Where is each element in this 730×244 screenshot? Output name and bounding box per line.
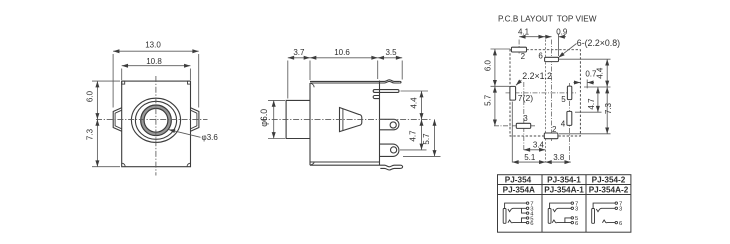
svg-text:2.2×1.2: 2.2×1.2	[522, 71, 552, 81]
schematic cell 2	[548, 202, 573, 224]
ext pin1	[401, 90, 429, 92]
corner square top-right	[188, 81, 191, 84]
sleeve bar 1	[503, 209, 506, 224]
svg-text:4.1: 4.1	[518, 27, 530, 36]
svg-text:5: 5	[561, 95, 566, 104]
corner square top-left	[122, 81, 125, 84]
svg-text:PJ-354-1: PJ-354-1	[547, 176, 581, 185]
svg-text:5.7: 5.7	[422, 133, 431, 145]
centerline v pad6/pad2b	[551, 40, 553, 142]
pin 1 hook tab	[373, 96, 380, 99]
svg-text:4.4: 4.4	[596, 67, 605, 79]
terminal circle 7	[526, 202, 528, 204]
svg-text:4.7: 4.7	[587, 98, 596, 110]
top flange plate lower line	[310, 81, 400, 83]
pad 6	[545, 57, 559, 61]
bottom flange end cap	[400, 165, 402, 168]
svg-text:13.0: 13.0	[145, 41, 161, 50]
bushing ring gray band	[142, 107, 169, 134]
dim 5.1 line	[512, 161, 545, 163]
dim 3.7 line	[288, 57, 310, 59]
hole circle phi3.6	[144, 108, 168, 132]
dim 3.5 line	[378, 57, 403, 59]
dim 4.1 line	[519, 36, 545, 38]
corner arc bottom-right	[187, 163, 191, 167]
pad 5	[567, 86, 571, 100]
side body left edge	[309, 83, 311, 165]
leader phi3.6	[169, 130, 201, 138]
pin 3 hole	[391, 147, 397, 153]
svg-text:0.9: 0.9	[556, 27, 568, 36]
svg-text:TOP VIEW: TOP VIEW	[557, 14, 597, 23]
dim 13.0 ext lines	[112, 54, 114, 108]
cone inner line	[342, 109, 344, 131]
svg-text:PJ-354: PJ-354	[505, 176, 532, 185]
pad 4	[567, 111, 572, 125]
svg-text:P.C.B LAYOUT: P.C.B LAYOUT	[498, 14, 553, 23]
throw wire to 4	[522, 208, 527, 213]
ext left dims	[491, 48, 511, 50]
front vertical centerline	[155, 76, 157, 176]
ext thin line shared	[544, 40, 546, 163]
side body bottom edge	[310, 161, 380, 163]
terminal circle 4	[526, 212, 528, 214]
left ear	[113, 108, 122, 132]
ext pad2b right	[559, 133, 611, 135]
pad 7	[510, 86, 516, 100]
svg-text:6: 6	[538, 51, 543, 60]
ext pad7 bottom	[511, 102, 513, 163]
wire ring to 6	[556, 222, 571, 224]
pin 2 hole	[390, 122, 396, 128]
terminal circle 6	[615, 221, 617, 223]
corner arc bottom-left	[122, 163, 126, 167]
svg-text:6.0: 6.0	[86, 90, 95, 102]
svg-text:3: 3	[575, 207, 579, 213]
top flange end cap	[400, 81, 401, 83]
dim 5.7 line	[434, 119, 436, 156]
leader 2.2x1.2	[516, 80, 522, 85]
dim phi6.0 line	[273, 100, 275, 138]
dim 7.3 line	[96, 119, 98, 166]
sleeve bar 3	[592, 209, 595, 224]
ext tick bottom	[92, 166, 120, 168]
bottom flange plate lower line	[380, 168, 400, 170]
terminal circle 6	[526, 221, 528, 223]
ext pin3	[400, 149, 427, 151]
sleeve bar 2	[548, 209, 551, 224]
table col line 1	[541, 175, 543, 233]
svg-text:4.4: 4.4	[410, 97, 419, 109]
svg-text:2: 2	[521, 52, 526, 61]
svg-text:PJ-354A-2: PJ-354A-2	[589, 186, 629, 195]
terminal circle 7	[615, 202, 617, 204]
dim 4.4 line	[421, 91, 423, 119]
svg-text:6: 6	[575, 221, 579, 227]
schematic cell 3	[592, 202, 618, 224]
svg-text:3.7: 3.7	[293, 48, 305, 57]
terminal circle 5	[526, 217, 528, 219]
pcb dashed outline	[510, 50, 580, 136]
svg-text:5.1: 5.1	[524, 153, 536, 162]
svg-text:3.5: 3.5	[385, 48, 397, 57]
throw wire to 5	[565, 218, 571, 223]
svg-text:3.4: 3.4	[533, 141, 545, 150]
svg-text:3: 3	[523, 114, 528, 123]
svg-text:6-(2.2×0.8): 6-(2.2×0.8)	[577, 38, 620, 48]
cone actuator	[340, 108, 362, 132]
dim 10.6 line	[310, 57, 378, 59]
dim 3.4 line	[524, 149, 546, 151]
side centerline	[261, 118, 432, 120]
front body rect	[122, 81, 191, 167]
ext mid right	[584, 86, 611, 88]
schematic cell 1	[503, 202, 529, 224]
svg-text:PJ-354-2: PJ-354-2	[592, 176, 626, 185]
centerline h pad3	[494, 125, 536, 127]
ring contact	[552, 220, 556, 223]
centerline h pads7-5	[506, 92, 578, 94]
wire sleeve to 7	[505, 203, 527, 208]
front horizontal centerline	[96, 118, 208, 120]
svg-text:3: 3	[619, 207, 623, 213]
ext pad4 right	[575, 111, 602, 113]
tip contact v	[553, 209, 557, 212]
ext phi6.0	[268, 99, 285, 101]
throw wire to 5	[522, 218, 527, 223]
table row line 1	[498, 184, 631, 186]
svg-text:PJ-354A-1: PJ-354A-1	[544, 186, 584, 195]
ring contact	[602, 220, 606, 223]
wire sleeve to 7	[593, 203, 615, 208]
svg-text:2: 2	[552, 125, 557, 134]
centerline v pad2 top	[518, 40, 520, 56]
terminal circle 3	[526, 207, 528, 209]
dim 6.0 line	[96, 81, 98, 119]
ext lines top dims	[287, 61, 289, 99]
svg-text:6: 6	[530, 221, 534, 227]
svg-text:7(2): 7(2)	[518, 93, 533, 103]
dim 6.0 left line	[494, 49, 496, 86]
pin 3 lug	[380, 144, 399, 156]
table col line 2	[585, 175, 587, 233]
wire ring to 6	[606, 222, 615, 224]
ext tick top	[92, 80, 120, 82]
svg-text:φ3.6: φ3.6	[202, 133, 219, 142]
svg-text:10.8: 10.8	[146, 57, 162, 66]
dim 7.3 right line	[606, 87, 608, 134]
terminal circle 7	[571, 202, 573, 204]
terminal circle 5	[571, 217, 573, 219]
wire tip to 3	[556, 207, 571, 210]
dim 0.9 arrows	[544, 36, 552, 38]
tip contact v	[596, 209, 600, 212]
wire sleeve to 7	[550, 203, 572, 208]
side body right edge	[379, 81, 381, 166]
svg-text:4: 4	[561, 119, 566, 128]
bottom flange plate upper line	[310, 165, 400, 167]
barrel	[286, 100, 310, 138]
pad 2 top	[511, 47, 526, 52]
terminal circle 3	[571, 207, 573, 209]
bushing outer ellipse	[131, 98, 180, 142]
centerline v pad3	[523, 82, 525, 151]
dim 3.8 line	[545, 161, 570, 163]
dim 4.7 line	[421, 119, 423, 149]
top flange plate upper line	[310, 80, 400, 82]
pin 1 flat	[373, 90, 399, 93]
pad 3	[516, 123, 530, 128]
svg-text:5.7: 5.7	[483, 94, 492, 106]
svg-text:3.8: 3.8	[553, 153, 565, 162]
dim 4.4 right line	[606, 59, 608, 87]
svg-text:7.3: 7.3	[86, 128, 95, 140]
right ear	[191, 108, 199, 132]
dim 0.7 tick	[586, 80, 588, 89]
wire tip to 3	[600, 207, 615, 210]
ext lug bottom	[403, 155, 441, 157]
terminal circle 3	[615, 207, 617, 209]
svg-text:4.7: 4.7	[409, 130, 418, 142]
pad 2 bottom	[544, 133, 558, 139]
svg-text:10.6: 10.6	[334, 48, 350, 57]
svg-text:φ6.0: φ6.0	[259, 109, 269, 127]
tip contact v	[508, 209, 512, 212]
leader 6-(2.2x0.8)	[558, 44, 576, 58]
dim 10.8 line	[122, 65, 191, 67]
bushing second ellipse	[135, 101, 176, 139]
terminal circle 6	[571, 221, 573, 223]
dim 5.7 left line	[494, 86, 496, 126]
ext pad6 right	[559, 58, 611, 60]
ring outer circle	[141, 105, 172, 136]
svg-text:6: 6	[619, 221, 623, 227]
centerline v pads5-4	[569, 83, 571, 163]
svg-text:6.0: 6.0	[483, 59, 492, 71]
svg-text:PJ-354A: PJ-354A	[503, 186, 535, 195]
table outer	[498, 175, 631, 233]
dim 10.8 ext lines	[121, 69, 123, 81]
ring contact	[508, 220, 512, 223]
dim 0.7 arrows	[574, 82, 581, 84]
dim 4.7 right line	[597, 87, 599, 112]
svg-text:7.3: 7.3	[604, 102, 613, 114]
wire ring to 6	[511, 222, 526, 224]
table row line 2	[498, 194, 631, 196]
dim 0.9 ticks	[558, 34, 560, 57]
bottom-left curl	[310, 162, 314, 165]
top-left curl	[310, 83, 314, 87]
dim 13.0 line	[113, 50, 199, 52]
wire tip to 3	[511, 207, 526, 210]
pin 2 lug	[380, 119, 399, 130]
